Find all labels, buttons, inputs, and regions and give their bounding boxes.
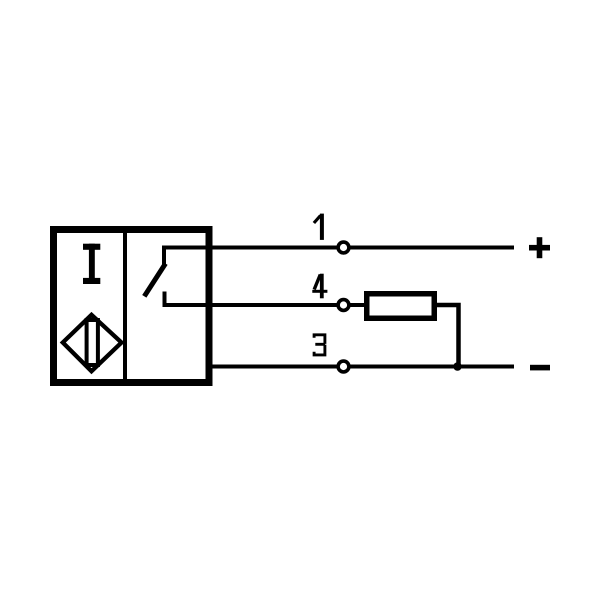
junction dot [453, 362, 462, 371]
resistor right lead [434, 305, 459, 367]
wire 4 (to terminal 4) [163, 303, 367, 307]
terminal 4 circle [338, 300, 349, 311]
label pin 3 [314, 335, 325, 355]
terminal 1 circle [338, 242, 349, 253]
switch lever (NO contact) [144, 264, 165, 297]
plus supply symbol [529, 237, 550, 258]
wire 1 (to terminal 1) [162, 246, 514, 250]
sensor internal divider [123, 233, 127, 380]
terminal 3 circle [338, 361, 349, 372]
switch upper stub [162, 248, 166, 267]
sensing face diamond [63, 315, 122, 371]
wire 3 (to terminal 3) [206, 365, 514, 369]
minus supply symbol [530, 365, 550, 371]
label pin 1 [314, 214, 322, 240]
sensor body outline [54, 230, 210, 383]
load resistor [367, 294, 435, 319]
diamond inner core rectangle [87, 320, 98, 365]
label pin 4 [312, 274, 327, 299]
inductive element symbol I [83, 244, 100, 284]
switch lower stub [163, 292, 167, 306]
